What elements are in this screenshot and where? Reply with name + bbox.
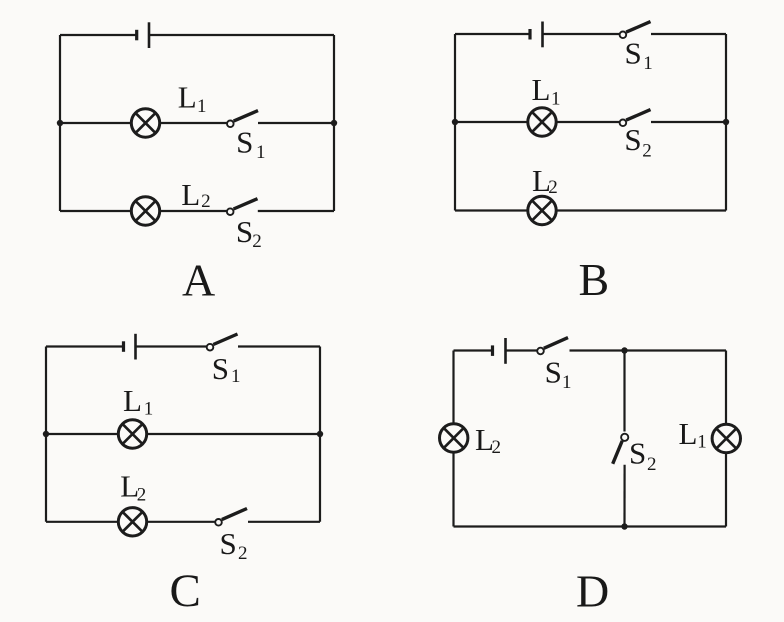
battery (circuit C): long positive plate <box>134 334 137 360</box>
label D (circuit name) <box>576 566 609 617</box>
svg-text:L: L <box>679 416 698 451</box>
svg-text:D: D <box>576 566 609 617</box>
wire A right edge <box>333 35 335 211</box>
lamp L1 (circuit D) <box>712 424 740 452</box>
label L2 (circuit A) <box>181 177 210 212</box>
wire B middle branch right <box>651 121 726 123</box>
svg-text:2: 2 <box>252 231 262 252</box>
lamp L2 (circuit C) <box>118 508 146 536</box>
switch S2 (circuit B) <box>620 110 651 127</box>
svg-text:1: 1 <box>231 366 241 387</box>
label L2 (circuit B) <box>532 163 558 198</box>
svg-text:2: 2 <box>647 454 657 475</box>
svg-text:2: 2 <box>492 437 502 458</box>
lamp L1 (circuit C) <box>118 420 146 448</box>
label S1 (circuit D) <box>545 355 572 394</box>
wire B middle branch mid <box>555 121 620 123</box>
wire B top-left segment <box>455 33 530 35</box>
label L2 (circuit D) <box>475 422 501 458</box>
svg-text:S: S <box>236 125 253 160</box>
svg-text:L: L <box>178 80 197 115</box>
svg-text:1: 1 <box>197 96 207 117</box>
junction dot D top <box>621 347 627 353</box>
svg-text:B: B <box>579 254 610 305</box>
label S1 (circuit A) <box>236 125 265 164</box>
label L1 (circuit B) <box>532 72 561 110</box>
battery (circuit A): long positive plate <box>148 22 151 48</box>
svg-text:2: 2 <box>238 543 248 564</box>
label C (circuit name) <box>170 565 201 617</box>
wire C top-left segment <box>46 345 123 347</box>
svg-text:1: 1 <box>256 142 266 163</box>
wire A bottom branch mid <box>159 210 228 212</box>
label A (circuit name) <box>182 255 215 306</box>
junction dot C right <box>317 431 323 437</box>
svg-text:S: S <box>220 526 237 561</box>
wire C middle branch left <box>46 433 120 435</box>
label L1 (circuit D) <box>679 416 707 453</box>
wire C bottom branch right <box>248 521 320 523</box>
battery (circuit B): short negative plate <box>528 29 531 40</box>
svg-text:1: 1 <box>697 432 707 453</box>
switch S1 (circuit C) <box>207 334 238 351</box>
switch S2 (circuit D) <box>613 434 629 464</box>
wire A left edge <box>59 35 61 211</box>
battery (circuit D): long positive plate <box>504 338 507 364</box>
wire B bottom branch left <box>455 209 529 211</box>
label S2 (circuit C) <box>220 526 248 564</box>
wire D middle vertical upper <box>623 351 625 432</box>
label L1 (circuit A) <box>178 80 207 118</box>
wire A bottom branch left <box>60 210 133 212</box>
label S2 (circuit D) <box>629 436 657 476</box>
wire B top mid segment <box>543 33 620 35</box>
battery (circuit B): long positive plate <box>541 22 544 48</box>
lamp L1 (circuit B) <box>528 108 556 136</box>
svg-text:S: S <box>625 36 642 71</box>
svg-text:A: A <box>182 255 215 306</box>
wire A top-right segment <box>149 34 334 36</box>
junction dot A left <box>57 120 63 126</box>
switch S1 (circuit A) <box>227 111 258 128</box>
svg-text:2: 2 <box>548 177 558 198</box>
label S2 (circuit A) <box>236 214 262 252</box>
wire B middle branch left <box>455 121 529 123</box>
lamp L2 (circuit A) <box>131 197 159 225</box>
wire C top-right segment <box>238 345 320 347</box>
junction dot B right <box>723 119 729 125</box>
lamp L2 (circuit D) <box>440 424 468 452</box>
svg-text:C: C <box>170 565 201 617</box>
svg-text:1: 1 <box>643 53 653 74</box>
wire A middle branch left <box>60 122 133 124</box>
svg-text:L: L <box>532 72 551 107</box>
svg-text:S: S <box>236 214 253 249</box>
wire A bottom branch right <box>258 210 334 212</box>
wire C right edge <box>319 347 321 522</box>
svg-text:2: 2 <box>201 191 211 212</box>
svg-text:1: 1 <box>551 89 561 110</box>
label S1 (circuit B) <box>625 36 653 75</box>
svg-text:2: 2 <box>642 141 652 162</box>
label S1 (circuit C) <box>212 351 241 387</box>
wire B left edge <box>454 34 456 211</box>
svg-text:L: L <box>181 177 200 212</box>
wire B bottom branch right <box>555 209 726 211</box>
wire C left edge <box>45 347 47 522</box>
switch S2 (circuit A) <box>227 199 258 215</box>
junction dot A right <box>331 120 337 126</box>
switch S1 (circuit D) <box>537 338 568 355</box>
wire A top-left segment <box>60 34 136 36</box>
battery (circuit A): short negative plate <box>135 30 138 41</box>
wire D bottom edge <box>454 525 727 527</box>
svg-text:S: S <box>212 351 229 386</box>
svg-text:S: S <box>545 355 562 390</box>
switch S1 (circuit B) <box>620 22 651 38</box>
wire B right edge <box>725 34 727 211</box>
svg-text:S: S <box>629 436 646 471</box>
wire D right edge lower <box>725 453 727 527</box>
wire D top mid segment <box>506 349 538 351</box>
wire A middle branch right <box>258 122 334 124</box>
label B (circuit name) <box>579 254 610 305</box>
wire D left edge lower <box>452 452 454 527</box>
lamp L1 (circuit A) <box>131 109 159 137</box>
wire D middle vertical lower <box>623 465 625 527</box>
wire D right edge upper <box>725 351 727 425</box>
wire D top-right segment <box>570 349 727 351</box>
lamp L2 (circuit B) <box>528 196 556 224</box>
wire D left edge upper <box>452 351 454 425</box>
battery (circuit C): short negative plate <box>122 341 125 352</box>
label S2 (circuit B) <box>624 122 651 162</box>
svg-text:2: 2 <box>137 485 147 506</box>
switch S2 (circuit C) <box>215 509 247 526</box>
junction dot D bottom <box>621 523 627 529</box>
wire C top mid segment <box>136 345 207 347</box>
label L1 (circuit C) <box>123 383 153 420</box>
label L2 (circuit C) <box>120 469 146 506</box>
wire A middle branch mid <box>159 122 228 124</box>
svg-text:S: S <box>624 122 641 157</box>
wire C middle branch right <box>146 433 321 435</box>
svg-text:L: L <box>123 383 142 418</box>
wire D top-left segment <box>454 349 492 351</box>
junction dot B left <box>452 119 458 125</box>
svg-text:1: 1 <box>144 399 154 420</box>
svg-text:1: 1 <box>562 372 572 393</box>
wire C bottom branch left <box>46 521 120 523</box>
junction dot C left <box>43 431 49 437</box>
battery (circuit D): short negative plate <box>491 345 494 356</box>
wire B top-right segment <box>651 33 726 35</box>
wire C bottom branch mid <box>146 521 216 523</box>
